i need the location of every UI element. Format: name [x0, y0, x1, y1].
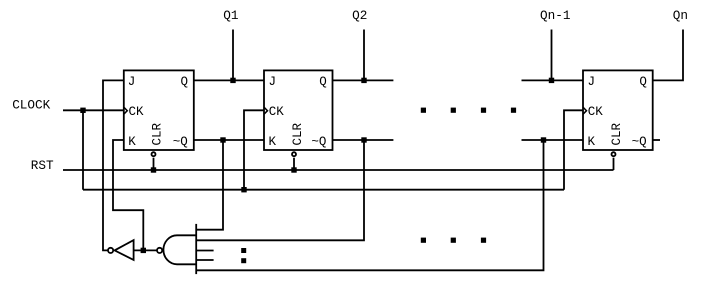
wire ~Qn-1 to gate input 5	[196, 140, 543, 270]
wire Q1 riser to label	[232, 30, 234, 81]
wire Q2 riser to label	[363, 30, 365, 81]
svg-text:Qn: Qn	[673, 8, 688, 23]
net ~Q1 wire FF1 ~Q to FF2 K	[194, 139, 264, 141]
wire clock riser left	[82, 110, 84, 189]
ellipsis dots bottom row	[421, 238, 486, 243]
svg-text:J: J	[128, 75, 136, 89]
junction clock tap	[80, 108, 85, 113]
FF2 clock edge marker	[264, 107, 268, 114]
inverter output bubble	[108, 248, 113, 253]
FF3 CLR bubble	[612, 152, 616, 156]
flip-flop FF3	[583, 70, 653, 156]
net Q1 wire FF1 Q to FF2 J	[194, 79, 264, 81]
FF1 clock edge marker	[124, 107, 128, 114]
svg-text:RST: RST	[31, 158, 54, 173]
wire Qn-1 riser to label	[551, 30, 553, 81]
net ~Q2 stub	[333, 139, 394, 141]
junction inverter input	[141, 248, 146, 253]
wire FF3 CK riser	[564, 110, 583, 189]
FF1 box	[124, 70, 194, 150]
svg-text:Q1: Q1	[223, 8, 238, 23]
svg-text:Qn-1: Qn-1	[540, 8, 570, 23]
wire NAND output to inverter input	[134, 249, 157, 251]
svg-text:K: K	[269, 135, 277, 149]
FF2 CLR bubble	[292, 152, 296, 156]
NAND gate input edge	[195, 224, 197, 274]
NAND gate body (left-facing AND shape)	[163, 235, 196, 264]
svg-text:~Q: ~Q	[311, 135, 326, 149]
junction clock feed FF2	[241, 187, 246, 192]
svg-text:Q: Q	[181, 75, 189, 89]
wire clock distribution line	[83, 189, 564, 191]
junction Qn-1	[549, 78, 554, 83]
svg-text:J: J	[269, 75, 277, 89]
svg-text:CK: CK	[269, 105, 285, 119]
inverter (left-facing) triangle	[115, 240, 134, 260]
svg-text:Q: Q	[319, 75, 327, 89]
svg-text:CK: CK	[588, 105, 604, 119]
junction FF2 CLR on RST	[291, 167, 296, 172]
wire J1 feedback from inverter output	[103, 80, 124, 250]
net Q2 stub	[333, 79, 394, 81]
net ~Qn-1 wire to FF3 K	[522, 139, 584, 141]
NAND input stub 3	[196, 250, 213, 252]
svg-text:CLR: CLR	[291, 122, 305, 145]
wire K1 feedback from gate output	[113, 140, 143, 250]
svg-text:CK: CK	[129, 105, 145, 119]
svg-text:~Q: ~Q	[632, 135, 647, 149]
flip-flop FF1	[124, 70, 194, 156]
svg-text:J: J	[588, 75, 596, 89]
junction ~Q1	[220, 137, 225, 142]
wire FF1 CLR riser	[153, 158, 155, 170]
svg-text:Q: Q	[639, 75, 647, 89]
FF3 box	[583, 70, 653, 150]
NAND output bubble	[157, 248, 162, 253]
junction ~Qn-1	[541, 137, 546, 142]
ellipsis dots gate inputs	[241, 248, 246, 263]
svg-text:K: K	[588, 135, 596, 149]
FF3 clock edge marker	[583, 107, 587, 114]
FF1 CLR bubble	[152, 152, 156, 156]
svg-text:Q2: Q2	[352, 8, 367, 23]
net Qn-1 wire to FF3 J	[522, 79, 584, 81]
FF2 box	[264, 70, 333, 150]
svg-text:CLOCK: CLOCK	[12, 98, 50, 113]
net Qn wire FF3 Q to label	[653, 30, 683, 81]
wire FF3 CLR riser	[613, 158, 615, 170]
wire ~Q2 to gate input 2	[196, 140, 364, 240]
svg-text:K: K	[128, 135, 136, 149]
junction Q2	[361, 78, 366, 83]
wire FF2 CLR riser	[293, 158, 295, 170]
ellipsis dots top row	[421, 108, 516, 113]
svg-text:CLR: CLR	[610, 122, 624, 145]
junction Q1	[230, 78, 235, 83]
wire FF2 CK riser	[244, 110, 264, 189]
junction ~Q2	[361, 137, 366, 142]
NAND input stub 4	[196, 259, 213, 261]
svg-text:CLR: CLR	[151, 122, 165, 145]
net ~Qn stub	[653, 139, 660, 141]
svg-text:~Q: ~Q	[173, 135, 188, 149]
wire RST line	[63, 169, 614, 171]
wire ~Q1 to gate input 1	[196, 140, 223, 230]
flip-flop FF2	[264, 70, 333, 156]
wire CLOCK input to FF1 CK	[63, 109, 124, 111]
junction FF1 CLR on RST	[151, 167, 156, 172]
